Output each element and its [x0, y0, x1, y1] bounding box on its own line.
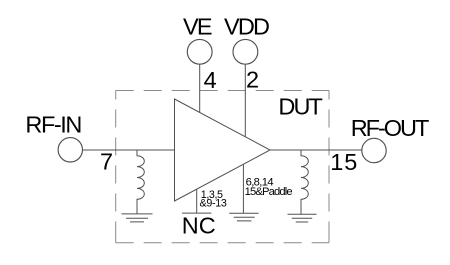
svg-text:7: 7 [100, 148, 113, 174]
svg-text:RF-IN: RF-IN [25, 111, 82, 137]
svg-text:DUT: DUT [278, 94, 323, 120]
svg-text:15&Paddle: 15&Paddle [245, 186, 293, 198]
svg-text:2: 2 [246, 66, 259, 92]
svg-text:15: 15 [330, 149, 357, 175]
svg-text:VE: VE [183, 14, 213, 40]
svg-text:NC: NC [182, 213, 216, 239]
svg-text:VDD: VDD [224, 14, 270, 40]
svg-text:&9-13: &9-13 [200, 197, 227, 209]
svg-text:4: 4 [204, 67, 217, 93]
svg-text:RF-OUT: RF-OUT [351, 115, 430, 141]
